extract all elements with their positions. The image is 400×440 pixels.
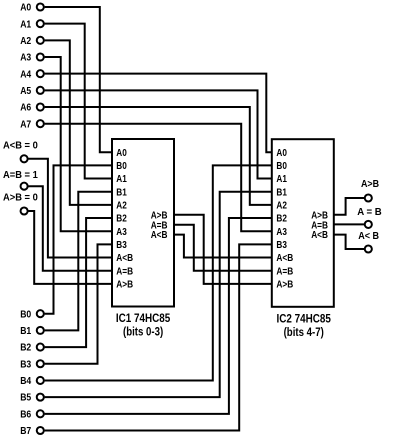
- svg-text:A3: A3: [116, 227, 127, 238]
- svg-text:A0: A0: [276, 148, 287, 159]
- svg-text:A3: A3: [20, 53, 31, 64]
- svg-text:A3: A3: [276, 227, 287, 238]
- svg-text:B0: B0: [116, 161, 127, 172]
- svg-text:A<B: A<B: [116, 253, 133, 264]
- svg-text:A<B: A<B: [151, 230, 168, 241]
- svg-text:A7: A7: [20, 119, 31, 130]
- op-amp IC2 74HC85 comparator body: [272, 139, 334, 307]
- wire IC1 A>B output to IC2 cascade input: [174, 215, 272, 284]
- cascade input A<B terminal: [21, 155, 28, 162]
- svg-text:IC1 74HC85: IC1 74HC85: [116, 311, 171, 325]
- svg-text:A4: A4: [20, 69, 31, 80]
- svg-text:(bits 0-3): (bits 0-3): [123, 325, 163, 339]
- svg-text:A0: A0: [116, 148, 127, 159]
- wire IC1 A<B output to IC2 cascade input: [174, 235, 272, 258]
- wire B2 to IC1 pin: [45, 218, 112, 347]
- wire A7 to IC2 pin: [45, 124, 272, 232]
- svg-text:B3: B3: [116, 240, 127, 251]
- node output A<B terminal: [365, 245, 372, 252]
- svg-text:B2: B2: [116, 214, 127, 225]
- svg-text:(bits 4-7): (bits 4-7): [284, 325, 324, 339]
- svg-text:B0: B0: [276, 161, 287, 172]
- svg-text:A2: A2: [276, 200, 287, 211]
- node output A>B terminal: [365, 194, 372, 201]
- svg-text:A<B = 0: A<B = 0: [3, 141, 38, 152]
- svg-text:B2: B2: [276, 214, 287, 225]
- node output A=B terminal: [365, 221, 372, 228]
- wire A6 to IC2 pin: [45, 107, 272, 205]
- svg-text:A2: A2: [20, 36, 31, 47]
- svg-text:A1: A1: [116, 174, 127, 185]
- svg-text:A5: A5: [20, 86, 31, 97]
- wire B3 to IC1 pin: [45, 244, 112, 363]
- svg-text:B2: B2: [20, 343, 31, 354]
- wire B5 to IC2 pin: [45, 192, 272, 397]
- wire A1 to IC1 pin: [45, 24, 112, 179]
- wire cascade A>B to IC1: [28, 211, 112, 284]
- svg-text:IC2 74HC85: IC2 74HC85: [277, 312, 332, 326]
- svg-text:A2: A2: [116, 200, 127, 211]
- wire cascade A=B to IC1: [28, 186, 112, 271]
- svg-text:B6: B6: [20, 409, 31, 420]
- op-amp IC1 74HC85 comparator body: [112, 139, 174, 307]
- wire cascade A<B to IC1: [28, 159, 112, 258]
- wire B0 to IC1 pin: [45, 165, 112, 313]
- svg-text:A<B: A<B: [276, 253, 293, 264]
- svg-text:B1: B1: [276, 187, 287, 198]
- svg-text:A< B: A< B: [358, 231, 379, 242]
- wire A4 to IC2 pin: [45, 74, 272, 153]
- svg-text:A>B: A>B: [361, 179, 379, 190]
- wire B7 to IC2 pin: [45, 244, 272, 430]
- wire A3 to IC1 pin: [45, 57, 112, 231]
- svg-text:A>B = 0: A>B = 0: [3, 192, 38, 203]
- wire IC1 A=B output to IC2 cascade input: [174, 225, 272, 271]
- wire B4 to IC2 pin: [45, 165, 272, 380]
- wire B1 to IC1 pin: [45, 192, 112, 331]
- svg-text:A6: A6: [20, 103, 31, 114]
- svg-text:A1: A1: [20, 19, 31, 30]
- wire IC2 A>B output to terminal: [334, 198, 364, 215]
- svg-text:A = B: A = B: [357, 207, 382, 218]
- svg-text:A1: A1: [276, 174, 287, 185]
- svg-text:B7: B7: [20, 426, 31, 437]
- svg-text:B3: B3: [20, 359, 31, 370]
- wire IC2 A=B output to terminal: [334, 223, 364, 225]
- cascade input A>B terminal: [21, 207, 28, 214]
- svg-text:B0: B0: [20, 309, 31, 320]
- svg-text:A>B: A>B: [276, 279, 293, 290]
- svg-text:A>B: A>B: [116, 279, 133, 290]
- wire IC2 A<B output to terminal: [334, 235, 364, 249]
- wire A0 to IC1 pin: [45, 7, 112, 152]
- svg-text:B1: B1: [20, 326, 31, 337]
- svg-text:B1: B1: [116, 187, 127, 198]
- wire B6 to IC2 pin: [45, 218, 272, 414]
- svg-text:A0: A0: [20, 3, 31, 14]
- svg-text:A<B: A<B: [311, 230, 328, 241]
- svg-text:A=B: A=B: [276, 266, 293, 277]
- cascade input A=B terminal: [21, 183, 28, 190]
- svg-text:B5: B5: [20, 393, 31, 404]
- svg-text:A=B: A=B: [116, 266, 133, 277]
- svg-text:A=B = 1: A=B = 1: [3, 170, 38, 181]
- wire A2 to IC1 pin: [45, 40, 112, 205]
- svg-text:B4: B4: [20, 376, 31, 387]
- svg-text:B3: B3: [276, 240, 287, 251]
- wire A5 to IC2 pin: [45, 90, 272, 178]
